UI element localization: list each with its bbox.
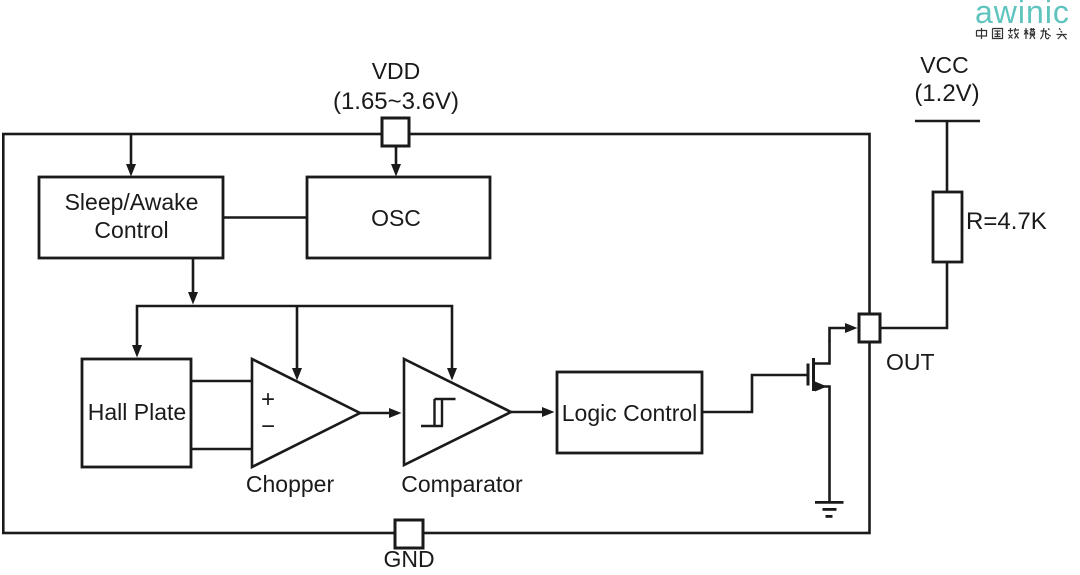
resistor R1 [933,192,962,262]
wire: Chopper to Comparator [360,412,389,415]
wire: Hall Plate upper output to Chopper [191,380,252,383]
arrowhead into OUT pin [845,323,858,333]
awinic logo [975,0,1070,30]
arrowhead onto Comparator [447,368,457,381]
wire: Logic Control to gate [702,375,807,412]
svg-text:awinic: awinic [975,0,1070,30]
GND pin square [395,520,423,548]
label Comparator [401,471,523,497]
svg-text:VDD: VDD [372,58,421,84]
VCC voltage label [914,80,979,107]
wire: distribution drop to Chopper [296,306,299,368]
OUT pin square [859,314,880,342]
svg-text:Comparator: Comparator [401,471,523,497]
arrowhead into Hall Plate [132,345,142,358]
OSC box [307,177,490,258]
arrowhead into Logic Control [542,407,555,417]
wire: drain to OUT node [830,328,846,342]
label OUT [886,349,935,375]
svg-text:Hall Plate: Hall Plate [88,399,186,425]
svg-text:Chopper: Chopper [246,471,335,497]
wire: VDD to OSC [395,146,398,164]
wire: Sleep/Awake to OSC [223,216,307,219]
wire: VCC to resistor [946,121,949,192]
logic control box [557,372,702,453]
svg-text:Control: Control [94,217,168,243]
op-amp Chopper [252,359,360,467]
svg-text:+: + [261,386,275,413]
VCC supply bar [915,120,980,123]
svg-text:Logic Control: Logic Control [562,400,698,426]
svg-text:OSC: OSC [371,205,421,231]
wire: Sleep/Awake down to distribution node [192,258,195,292]
svg-text:OUT: OUT [886,349,935,375]
svg-text:(1.2V): (1.2V) [914,80,979,107]
svg-text:GND: GND [383,546,434,572]
svg-text:Sleep/Awake: Sleep/Awake [65,189,199,215]
VDD label [372,58,421,84]
arrowhead onto Chopper [292,368,302,381]
VDD pin square [382,118,409,146]
arrowhead onto distribution line [188,292,198,305]
arrowhead into Sleep/Awake [126,164,136,177]
comparator U2 [404,359,511,465]
arrowhead into OSC [391,164,401,177]
svg-text:(1.65~3.6V): (1.65~3.6V) [333,88,459,115]
wire: Comparator to Logic Control [511,411,542,414]
chip boundary [3,134,869,533]
ground [815,502,844,516]
label R=4.7K [966,208,1047,235]
transistor Q1 (NMOS) [808,341,830,503]
svg-text:R=4.7K: R=4.7K [966,208,1047,235]
arrowhead into Comparator [389,408,402,418]
sleep/awake control box [39,177,223,258]
VCC label [920,52,969,78]
label Chopper [246,471,335,497]
wire: top rail drop to Sleep/Awake [130,134,133,164]
label GND [383,546,434,572]
wire: resistor to OUT node [880,262,947,328]
wire: Hall Plate lower output to Chopper [191,448,252,451]
svg-text:VCC: VCC [920,52,969,78]
wire: distribution line [137,306,452,368]
svg-text:−: − [261,413,275,440]
arrowhead on source [815,382,827,392]
VDD range label [333,88,459,115]
logo tagline 中国数模龙头 [977,28,1067,39]
hall plate box [82,359,191,467]
